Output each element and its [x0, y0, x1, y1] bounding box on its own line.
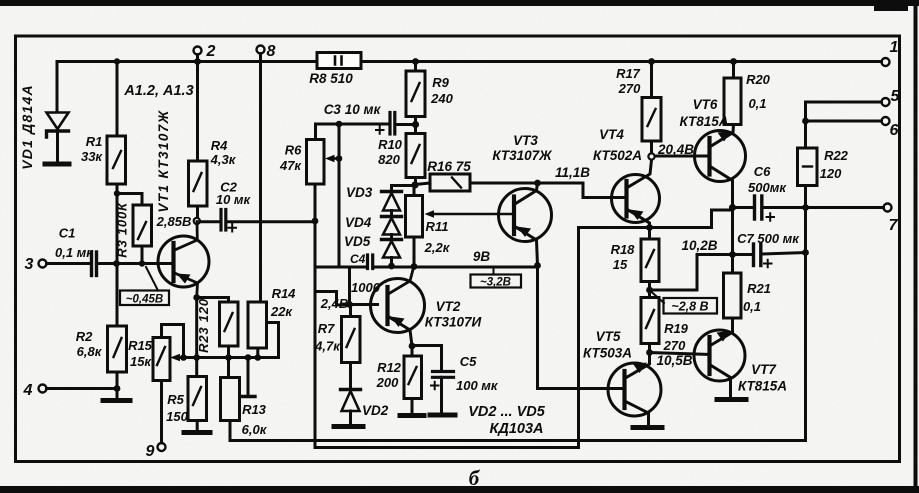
- svg-text:4,3к: 4,3к: [210, 152, 237, 167]
- wire: output column down to bottom bus: [804, 208, 807, 441]
- junction C7 node: [729, 251, 736, 258]
- wire: R1 stub from rail: [116, 62, 119, 137]
- junction rail/R20: [730, 58, 737, 65]
- diode VD5: [382, 240, 402, 258]
- R13 side tap to bus: [241, 358, 255, 397]
- svg-text:15: 15: [613, 257, 628, 272]
- wire: collector node down to bias bus: [195, 298, 198, 358]
- wire: node to VT2 base: [350, 303, 378, 306]
- resistor R1: [107, 136, 126, 184]
- wire: R16 to VT4 base: [470, 183, 627, 198]
- junction R2/терминал 4: [114, 385, 121, 392]
- bias bus wire: [183, 356, 279, 359]
- svg-text:150: 150: [166, 409, 188, 424]
- resistor R14: [248, 302, 267, 348]
- wire: R23 bottom to bus: [227, 346, 230, 358]
- label R11 2,2к: [424, 219, 451, 255]
- label R12 200: [376, 360, 402, 390]
- svg-text:VT2: VT2: [436, 299, 461, 314]
- junction bus/R13 tap: [245, 354, 252, 361]
- svg-text:R4: R4: [211, 138, 228, 153]
- capacitor C4 (in series with bus): [368, 255, 373, 269]
- svg-text:2,2к: 2,2к: [424, 240, 451, 255]
- terminal 7: [884, 204, 892, 212]
- svg-text:6,0к: 6,0к: [242, 422, 268, 437]
- wire: node to VT7 base: [650, 353, 710, 355]
- junction bias column / base line: [113, 260, 120, 267]
- label R7 4,7к: [314, 321, 341, 354]
- junction 10,5В node: [646, 349, 653, 356]
- terminal 3: [39, 260, 47, 268]
- label VT3 КТ3107Ж: [492, 133, 553, 163]
- resistor R3 slash: [138, 222, 146, 239]
- wire: R14 bottom to bus: [256, 348, 259, 358]
- resistor R16 (horizontal): [415, 174, 470, 191]
- svg-text:VD3: VD3: [346, 185, 373, 200]
- wire: VT4 emitter row: [579, 210, 731, 228]
- terminal 8: [257, 46, 265, 54]
- svg-text:R23 120: R23 120: [196, 298, 211, 353]
- wire: R7 bottom to VD2: [349, 363, 352, 390]
- label R22 120: [820, 148, 849, 181]
- svg-text:КТ3107И: КТ3107И: [425, 315, 482, 330]
- transistor VT2 КТ3107И: [371, 268, 425, 347]
- R14 side tap to bus: [267, 323, 279, 358]
- label R10 820: [378, 137, 403, 167]
- junction VT3 emitter / R16 line: [534, 180, 541, 187]
- svg-text:8: 8: [267, 43, 276, 60]
- wire: collector node to R23: [197, 298, 229, 303]
- svg-text:820: 820: [378, 152, 400, 167]
- box label ~2,8В with pointer: [651, 292, 717, 314]
- svg-text:R16 75: R16 75: [427, 159, 471, 174]
- svg-text:КД103А: КД103А: [489, 421, 543, 437]
- wire: terminal 3 to C1: [47, 262, 91, 265]
- svg-text:R1: R1: [86, 134, 103, 149]
- wire: R4 bottom to emitter node: [196, 206, 199, 218]
- junction terminals 5,6: [802, 118, 809, 125]
- svg-text:10,2В: 10,2В: [681, 238, 717, 253]
- label C5 100 мк: [456, 354, 499, 393]
- resistor R10: [406, 117, 425, 178]
- svg-text:11,1В: 11,1В: [555, 165, 590, 180]
- resistor R3: [133, 205, 152, 246]
- label R1 33к: [81, 134, 103, 164]
- junction C2 line / R6 column: [312, 218, 319, 225]
- polarity + of C6: [767, 213, 775, 221]
- capacitor C5 with wire from collector node: [412, 346, 454, 378]
- box label ~0,45В with pointer: [120, 267, 169, 306]
- diode VD2: [341, 390, 361, 412]
- label R4 4,3к: [210, 138, 237, 167]
- junction VT2 collector: [409, 343, 416, 350]
- ground under VT5: [633, 421, 662, 428]
- junction R1/R3: [114, 190, 120, 196]
- svg-text:С3 10 мк: С3 10 мк: [324, 102, 382, 117]
- svg-text:VD4: VD4: [345, 215, 372, 230]
- wire: R15 top jog to bus: [162, 325, 184, 355]
- svg-text:R19: R19: [664, 321, 689, 336]
- wire: R6 column top (C3 line): [316, 124, 389, 140]
- svg-text:R15: R15: [128, 338, 153, 353]
- label C1 0,1мк: [55, 226, 94, 261]
- page bottom rule: [0, 486, 919, 493]
- ground under VT7: [717, 397, 746, 402]
- svg-text:0,1 мк: 0,1 мк: [55, 245, 94, 260]
- junction VT3 collector / 9V bus: [534, 262, 541, 269]
- label R15 15к: [128, 338, 153, 369]
- capacitor C6 with wire: [733, 196, 806, 219]
- wire: R1 bottom to node: [116, 184, 119, 194]
- wire: R6 column down to bottom bus L2: [314, 292, 317, 448]
- wire: R17 bottom to 20,4В node: [650, 141, 653, 153]
- resistor R5: [188, 358, 207, 421]
- capacitor C1: [92, 252, 97, 276]
- ground under R5: [184, 421, 210, 433]
- wire: R3 bottom to base line: [141, 246, 144, 264]
- svg-text:2,4В: 2,4В: [320, 296, 348, 311]
- svg-text:КТ503А: КТ503А: [583, 346, 632, 361]
- svg-text:4: 4: [23, 382, 33, 399]
- label R14 22к: [270, 286, 296, 319]
- svg-text:33к: 33к: [81, 149, 103, 164]
- tap arrow into R15: [170, 354, 183, 362]
- svg-text:б: б: [469, 466, 481, 490]
- svg-text:КТ815А: КТ815А: [738, 379, 787, 394]
- wire: bus to 2,4В node: [348, 267, 351, 305]
- wire: VD stack top from node: [392, 186, 416, 191]
- junction rail/terminal 2: [194, 58, 201, 65]
- svg-text:С5: С5: [460, 354, 477, 369]
- svg-text:R14: R14: [272, 286, 297, 301]
- label R19 270: [663, 321, 689, 353]
- label R5 150: [166, 392, 188, 424]
- svg-text:1: 1: [890, 39, 899, 56]
- svg-text:VТ3: VТ3: [513, 133, 538, 148]
- svg-text:47к: 47к: [279, 158, 302, 173]
- svg-text:2: 2: [206, 43, 216, 60]
- label VT6 КТ815А: [680, 97, 729, 129]
- junction C3 line / C4 column: [336, 121, 343, 128]
- wire: R19 bottom to 10,5В node: [648, 344, 651, 353]
- wire: node to terminal 7: [806, 206, 884, 209]
- junction R3 / base line: [139, 260, 145, 266]
- svg-text:10 мк: 10 мк: [216, 192, 252, 207]
- wire: VD1 drop from rail: [56, 62, 59, 113]
- junction rail/R9: [412, 58, 419, 65]
- svg-text:R17: R17: [616, 66, 641, 81]
- label R18 15: [611, 242, 636, 272]
- label R9 240: [430, 75, 453, 106]
- svg-text:500мк: 500мк: [748, 180, 787, 195]
- node 2,85В (measure point): [194, 218, 200, 224]
- label R17 270: [616, 66, 641, 96]
- svg-text:КТ502А: КТ502А: [593, 148, 642, 163]
- resistor R15: [153, 338, 170, 381]
- ground under R2 node: [103, 389, 130, 401]
- resistor R2: [108, 326, 127, 372]
- label C6 500мк: [748, 164, 787, 195]
- svg-text:R11: R11: [426, 219, 449, 234]
- wire: R6 bottom to C2 node and down: [314, 184, 317, 292]
- junction rail/R1: [114, 58, 120, 64]
- transistor VT3 КТ3107Ж: [499, 183, 552, 266]
- page corner black tab: [874, 0, 908, 11]
- svg-text:VD5: VD5: [344, 234, 371, 249]
- wire: terminal 8 down to R14: [259, 54, 262, 303]
- svg-text:VD1 Д814А: VD1 Д814А: [19, 84, 35, 170]
- label R2 6,8к: [76, 329, 103, 359]
- svg-text:6: 6: [890, 122, 899, 139]
- junction rail/R17: [648, 58, 655, 65]
- terminal 1: [882, 58, 890, 66]
- ground under VD2: [334, 411, 363, 427]
- resistor R17: [642, 62, 661, 142]
- wire: R10 bottom to VD/R11 node: [414, 178, 417, 186]
- wire: VT6 base from 20,4В node: [655, 155, 710, 158]
- wire: terminal 4 to node: [47, 387, 118, 390]
- svg-text:R20: R20: [746, 72, 771, 87]
- svg-text:VD2: VD2: [362, 403, 389, 418]
- capacitor C3: [390, 113, 395, 135]
- svg-text:22к: 22к: [270, 304, 293, 319]
- polarity + of C3: [376, 126, 384, 134]
- wire: R2 bottom to ground node: [116, 372, 119, 389]
- resistor R12: [404, 346, 422, 399]
- svg-text:VT4: VT4: [599, 127, 624, 142]
- 9V bus (left of C4): [315, 266, 366, 269]
- wire: output rail down to C7: [731, 208, 734, 255]
- svg-text:9В: 9В: [473, 249, 491, 264]
- junction R18/R19: [646, 287, 653, 294]
- bottom bus L1 (R13 to output column): [230, 439, 806, 442]
- page right rule: [914, 0, 918, 487]
- junction 2,4В node: [346, 301, 353, 308]
- junction bus/VT1 collector/R5: [193, 354, 200, 361]
- wire: VD4 to VD5: [390, 235, 393, 240]
- svg-text:R10: R10: [378, 137, 403, 152]
- label R6 47к: [279, 143, 302, 174]
- capacitor C7 with wire: [733, 244, 806, 266]
- resistor R19: [641, 290, 659, 344]
- svg-text:R6: R6: [285, 143, 302, 158]
- junction VT4 emitter/R18: [646, 224, 653, 231]
- svg-text:270: 270: [618, 81, 641, 96]
- wire: terminal 5 to R22 column: [806, 102, 882, 121]
- svg-text:R2: R2: [76, 329, 93, 344]
- label VT2 КТ3107И: [425, 299, 482, 330]
- terminal 2: [194, 47, 202, 55]
- label C2 10мк: [216, 180, 252, 208]
- wire: R13 bottom to bottom bus: [229, 421, 232, 441]
- svg-text:КТ3107Ж: КТ3107Ж: [492, 148, 553, 163]
- resistor R23: [220, 302, 239, 346]
- svg-text:R21: R21: [747, 281, 771, 296]
- wire: C1 to VT1 base: [99, 262, 174, 265]
- junction output/terminal 7: [802, 204, 809, 211]
- wire: VD5 to 9V bus: [390, 258, 393, 267]
- wire: terminal 6 to R22 column: [806, 120, 882, 123]
- bottom bus L2 (R6 column to VT4 emitter column): [315, 446, 579, 449]
- resistor R13: [221, 358, 240, 421]
- resistor R22: [798, 121, 818, 186]
- junction bus/R14 bottom: [254, 354, 261, 361]
- svg-text:15к: 15к: [130, 354, 152, 369]
- svg-text:R12: R12: [377, 360, 402, 375]
- svg-text:VT6: VT6: [693, 97, 718, 112]
- ground under C5: [430, 377, 455, 415]
- svg-text:120: 120: [820, 166, 842, 181]
- terminal 5: [882, 98, 890, 106]
- resistor R20: [724, 62, 741, 125]
- svg-text:0,1: 0,1: [743, 299, 761, 314]
- transistor VT5 КТ503А: [608, 353, 661, 421]
- polarity + of C7: [764, 260, 772, 268]
- junction R9/R10/C3: [412, 121, 419, 128]
- label VT4 КТ502А: [593, 127, 642, 163]
- zener diode VD1 Д814А: [45, 113, 69, 165]
- label R13 6,0к: [242, 402, 268, 437]
- wire: VT4 emitter column down to bottom: [577, 228, 580, 448]
- junction R11,VT2 emitter/bus: [411, 263, 418, 270]
- capacitor C2: [221, 210, 226, 231]
- label VT7 КТ815А: [738, 362, 787, 394]
- ground under R12: [400, 399, 424, 416]
- svg-text:9: 9: [146, 443, 155, 460]
- svg-text:0,1: 0,1: [748, 96, 766, 111]
- svg-text:100 мк: 100 мк: [456, 378, 499, 393]
- svg-text:VT7: VT7: [751, 362, 777, 377]
- junction C4 column / R6 tap: [336, 155, 343, 162]
- resistor R11: [406, 188, 423, 237]
- junction bus/R15 jog: [180, 354, 187, 361]
- wire: R21 bottom to VT7: [731, 318, 734, 332]
- svg-text:С6: С6: [754, 164, 771, 179]
- wire: R15 bottom to terminal 9: [160, 381, 163, 444]
- diode VD4: [382, 217, 402, 235]
- resistor R9: [406, 62, 425, 117]
- terminal 4: [39, 385, 47, 393]
- wire: R11 bottom to bus: [413, 237, 416, 267]
- svg-text:270: 270: [663, 338, 686, 353]
- svg-text:R18: R18: [611, 242, 636, 257]
- junction R10/R16/VD3/R11: [411, 181, 418, 188]
- junction output node (VT6 emitter): [729, 204, 736, 211]
- svg-text:~3,2В: ~3,2В: [480, 277, 511, 289]
- polarity + of C5: [431, 382, 439, 390]
- page top rule: [0, 0, 919, 6]
- tap arrow into R11 from VT3 base: [425, 210, 515, 217]
- svg-text:~2,8 В: ~2,8 В: [671, 300, 708, 314]
- svg-text:~0,45В: ~0,45В: [126, 294, 163, 306]
- svg-text:С7 500 мк: С7 500 мк: [737, 231, 800, 246]
- resistor R6: [307, 140, 325, 185]
- svg-text:R13: R13: [242, 402, 267, 417]
- svg-text:R7: R7: [318, 321, 335, 336]
- wire: terminal 2 down to R4: [196, 55, 199, 162]
- svg-text:5: 5: [891, 88, 901, 105]
- wire: C2 to R6 column: [228, 220, 315, 223]
- wire: VT3 collector down and to VT5 base: [538, 266, 625, 389]
- svg-text:4,7к: 4,7к: [314, 339, 341, 354]
- resistor R18: [641, 228, 659, 282]
- wire: bias column down to R2: [116, 194, 119, 327]
- transistor VT4 КТ502А: [612, 160, 660, 228]
- wire: node to C2 left plate: [200, 220, 220, 223]
- resistor R21: [724, 255, 742, 319]
- svg-text:R5: R5: [167, 392, 184, 407]
- box label ~3,2В with pointer: [471, 268, 522, 289]
- wire: C3 to R9/R10 node: [397, 123, 416, 126]
- svg-text:А1.2, А1.3: А1.2, А1.3: [123, 83, 193, 99]
- transistor VT1 КТ3107Ж: [158, 222, 209, 298]
- svg-text:КТ815А: КТ815А: [680, 114, 729, 129]
- R6 tap arrow from C4 column: [325, 155, 339, 162]
- wire: R22 bottom to output line: [804, 186, 807, 208]
- junction C7/output column: [802, 249, 809, 256]
- svg-text:R9: R9: [432, 75, 449, 90]
- label VT5 КТ503А: [583, 329, 632, 361]
- wire: VD3 to VD4: [390, 211, 393, 217]
- svg-text:С4: С4: [350, 252, 366, 266]
- wire: +V top rail: [57, 60, 882, 63]
- transistor VT6 КТ815А: [695, 125, 746, 208]
- diode VD3: [382, 192, 402, 211]
- junction VT1 collector node: [193, 294, 200, 301]
- svg-text:С1: С1: [59, 226, 76, 241]
- resistor R4: [189, 161, 208, 206]
- svg-text:VD2 ... VD5: VD2 ... VD5: [468, 404, 545, 420]
- resistor R8 (in series with rail): [317, 53, 361, 69]
- wire: jog from R6 column to 2,4В node: [315, 292, 350, 306]
- node 20,4В (measure point): [648, 153, 654, 159]
- wire: R18/R19 node to output column: [650, 255, 731, 291]
- svg-text:R8 510: R8 510: [309, 71, 353, 86]
- junction VD5/bus: [388, 263, 395, 270]
- svg-text:7: 7: [889, 217, 899, 234]
- resistor R7: [342, 305, 361, 363]
- terminal 9: [158, 443, 166, 451]
- junction bus/R23/R13: [225, 354, 232, 361]
- wire: jog to R3 top: [117, 194, 142, 206]
- svg-text:240: 240: [430, 91, 453, 106]
- wire: C4 column down to 9V bus: [338, 124, 341, 267]
- terminal 6: [882, 117, 890, 125]
- svg-text:3: 3: [25, 256, 34, 273]
- svg-text:2,85В: 2,85В: [156, 214, 192, 229]
- svg-text:VT1 КТ3107Ж: VT1 КТ3107Ж: [156, 109, 171, 212]
- label R21 0,1: [743, 281, 771, 314]
- 9V bus (right of C4): [375, 266, 538, 269]
- transistor VT7 КТ815А: [694, 330, 745, 396]
- polarity + of C2: [229, 224, 237, 232]
- svg-text:VT5: VT5: [596, 329, 621, 344]
- svg-text:200: 200: [376, 375, 399, 390]
- svg-text:6,8к: 6,8к: [77, 344, 103, 359]
- label R20 0,1: [746, 72, 771, 111]
- svg-text:R22: R22: [824, 148, 849, 163]
